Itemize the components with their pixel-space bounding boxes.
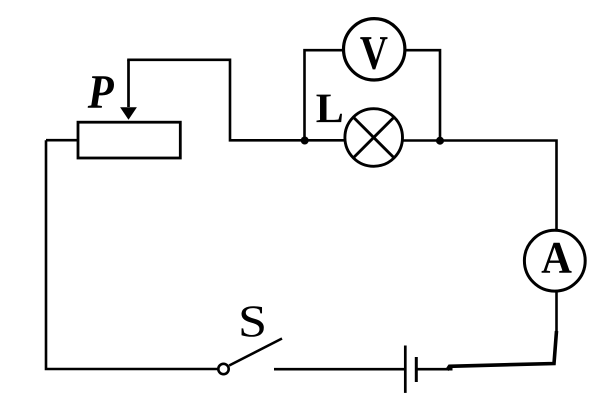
label P — [88, 76, 114, 108]
wire: battery positive lead — [416, 368, 453, 371]
battery long plate — [404, 346, 407, 393]
voltmeter U-V circle — [344, 19, 405, 80]
label A — [542, 243, 572, 273]
battery short plate — [415, 357, 418, 382]
label S — [242, 306, 264, 337]
label L — [316, 95, 342, 122]
wire: lamp right lead — [403, 139, 440, 142]
switch blade — [229, 339, 282, 366]
switch S pivot circle — [218, 364, 228, 374]
wire: lamp right node to top-right corner, down to ammeter — [440, 141, 557, 230]
ammeter A circle — [524, 230, 585, 291]
wire: left vertical + bottom run to switch — [46, 140, 218, 369]
resistor (rheostat) P body — [78, 122, 180, 158]
wire: lamp left lead — [305, 139, 346, 142]
wire: wiper top to corner, down, and to lamp left node — [127, 60, 306, 141]
node: left junction dot — [301, 137, 309, 145]
wire: rheostat left lead — [46, 139, 79, 142]
wire: voltmeter right branch — [405, 50, 440, 140]
wire: voltmeter left branch — [305, 50, 344, 140]
lamp L (circle with X) — [345, 109, 403, 167]
node: right junction dot — [436, 137, 444, 145]
rheostat wiper arrow — [120, 60, 137, 120]
wire: switch to battery — [274, 368, 404, 371]
label V — [360, 37, 387, 69]
wire: jog down from ammeter and run left to battery — [447, 331, 557, 370]
wire: ammeter bottom lead — [555, 293, 558, 333]
